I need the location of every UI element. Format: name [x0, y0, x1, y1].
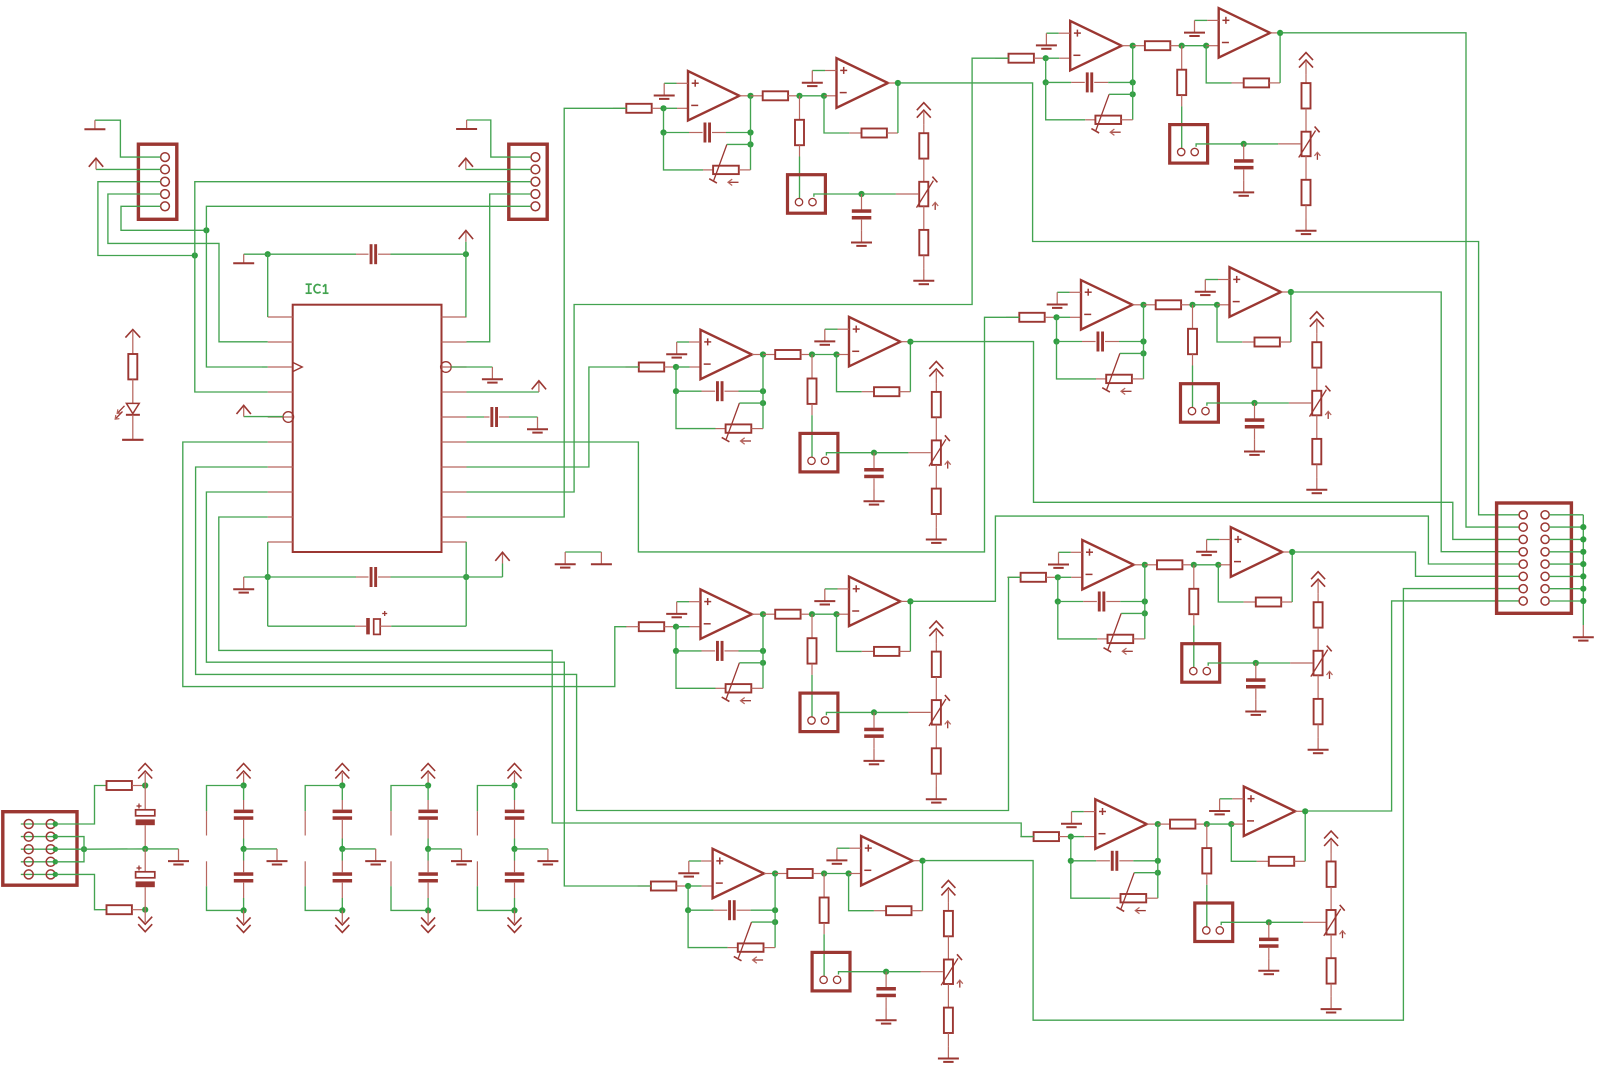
wire R1-Bfb2 [1279, 33, 1281, 83]
junction L1-capN [858, 191, 864, 197]
wire R1-fb1 [1045, 58, 1047, 82]
wire G-tie [565, 551, 601, 553]
junction IC1-bot-left [265, 574, 271, 580]
supply VEE-DC2 [341, 910, 343, 923]
wire IC1-bot-gndlink [244, 576, 268, 578]
ground R1-GB [1194, 20, 1196, 32]
junction L2-mid1 [809, 351, 815, 357]
pin DC2-vplus [304, 811, 306, 835]
wire L2-outdrop2 [762, 391, 764, 428]
junction R2-potR [1140, 350, 1146, 356]
wire SV2-1-gnd [467, 120, 509, 157]
ground R3-GC [1255, 699, 1257, 711]
ground R1-GC [1243, 180, 1245, 192]
supply VCC-DC2 [341, 773, 343, 786]
resistor L2-Ru [935, 383, 937, 392]
junction IC1-top-left [265, 251, 271, 257]
wire L4-outdrop [774, 874, 776, 911]
wire L3-A+pin [689, 601, 701, 603]
junction SVR-dot [1580, 549, 1586, 555]
supply R3-VCC [1317, 581, 1319, 594]
ground R4-GA [1071, 812, 1073, 824]
wire R1-B+ [1195, 19, 1208, 21]
junction L2-potR [760, 400, 766, 406]
wire L3-fbL2 [676, 650, 702, 652]
resistor R1-Rdn [1181, 46, 1183, 70]
wire L3-Bout-pin [900, 600, 910, 602]
wire IC1-top-left-drop [267, 254, 269, 317]
wire R4-Aout-pin [1147, 823, 1158, 825]
wire R1-trimpin [1278, 143, 1300, 145]
supply VCC-LED [132, 331, 134, 354]
wire R4-potloopL [1071, 861, 1111, 898]
junction L4-mid1 [821, 870, 827, 876]
wire R3out [1292, 552, 1519, 576]
wire R4-outdrop2 [1157, 861, 1159, 898]
potentiometer L2-Pfb [716, 428, 726, 430]
wire L2-mid [812, 354, 837, 356]
junction L1-inv-node [660, 105, 666, 111]
wire L4-tojp [823, 934, 825, 976]
wire DC3-loop-bot [391, 886, 428, 910]
wire R1feed [467, 58, 1009, 492]
resistor R2-Rin [1019, 313, 1044, 322]
ground G-LED [122, 439, 143, 441]
wire L1-tojp [799, 157, 801, 199]
junction IC1-bot-right [463, 574, 469, 580]
wire L4-jpout [839, 972, 887, 975]
resistor R3-Rs [1145, 564, 1157, 566]
wire bus1-R4feed [219, 517, 1034, 837]
solder-jumper L3-JP [800, 693, 838, 732]
wire R3-tojp [1193, 626, 1195, 668]
wire R2-Bfb1 [1217, 305, 1242, 342]
capacitor R3-Cfb [1083, 601, 1097, 603]
wire R3-capN2 [1256, 662, 1290, 664]
ground L4-GT [947, 1046, 949, 1058]
wire L2-potloopL [676, 391, 716, 428]
wire DC3-gnd [428, 848, 461, 850]
wire L2-Bfb2 [909, 342, 911, 392]
supply VCC-DC3 [427, 773, 429, 786]
junction R1-Bout [1277, 30, 1283, 36]
junction DC3-top [425, 782, 431, 788]
connector SV2 pins [531, 153, 540, 162]
wire SV1-1-gnd [95, 120, 138, 157]
trimmer L4-Pt [944, 960, 953, 985]
wire R3-mid [1194, 564, 1219, 566]
wire R2-capN2 [1255, 402, 1289, 404]
junction R2-fbR [1140, 338, 1146, 344]
wire L3-Bfb1 [837, 614, 862, 651]
ground L2-GA [676, 342, 678, 354]
wire SVP-3 [55, 848, 84, 850]
wire DC1-gnd [244, 848, 277, 850]
ground R1-GT [1305, 219, 1307, 231]
connector SV2 box [509, 144, 547, 219]
pin DC3-vminus [390, 861, 392, 886]
wire R3-outdrop2 [1144, 602, 1146, 639]
junction R3-inv-node [1055, 574, 1061, 580]
wire IC1-bot-right-v [465, 542, 467, 626]
supply VEE-P [144, 910, 146, 923]
wire R4-Bfb2 [1304, 811, 1306, 861]
pin DC3-vplus [390, 811, 392, 835]
wire R2-B+ [1205, 279, 1218, 281]
junction L2-capN [871, 450, 877, 456]
wire R1-potwiper [1109, 93, 1133, 95]
capacitor L2-Cfb [702, 390, 716, 392]
wire L1-inv [664, 107, 678, 109]
wire R4-A+ [1072, 811, 1084, 813]
junction DC2-mid [339, 846, 345, 852]
capacitor L1-Cfb [689, 132, 703, 134]
op-amp L4-B [861, 836, 912, 886]
junction L4-capN [883, 969, 889, 975]
ground G-tie-right [600, 552, 602, 564]
capacitor C-IC-bot1 [268, 576, 356, 578]
capacitor R4-Cfb [1096, 860, 1110, 862]
resistor R2-Rdn [1192, 305, 1194, 329]
junction R4-capN [1266, 919, 1272, 925]
junction DC3-mid [425, 846, 431, 852]
wire L2-outdrop [762, 355, 764, 392]
ground L1-GB [811, 71, 813, 83]
wire L1-Bout-pin [888, 82, 898, 84]
wire L2-trimpin [908, 452, 930, 454]
wire R3-Bfb1 [1218, 565, 1243, 602]
wire L4-A+pin [701, 860, 713, 862]
junction DC4-bot [511, 907, 517, 913]
wire R4-Bout-pin [1295, 810, 1305, 812]
wire L3-inv [676, 626, 690, 628]
resistor R4-Rfb [1257, 860, 1269, 862]
resistor R1-Ru [1305, 75, 1307, 84]
resistor R1-Rs [1133, 45, 1145, 47]
junction R4-mid1 [1204, 821, 1210, 827]
wire R4-B-pin [1231, 823, 1244, 825]
wire R2-Bfb2 [1290, 292, 1292, 342]
label IC1 [306, 283, 312, 285]
wire R1-fbL2 [1046, 81, 1072, 83]
pin DC2-vminus [304, 861, 306, 886]
wire R2-A+ [1057, 291, 1069, 293]
capacitor DC4-C1 [514, 786, 516, 801]
junction R2-mid1 [1189, 302, 1195, 308]
ground G-DC1 [276, 849, 278, 861]
wire R1-mid [1182, 45, 1207, 47]
wire L1-trimpin [896, 193, 918, 195]
resistor R3-Rin [1021, 573, 1046, 582]
junction L1-potR [747, 141, 753, 147]
junction R2-inv-node [1053, 314, 1059, 320]
ground R3-GB [1206, 540, 1208, 552]
junction R4-fbR [1155, 858, 1161, 864]
pin DC4-vminus [476, 861, 478, 886]
junction R3-Aout [1142, 562, 1148, 568]
wire R4-fbR [1133, 860, 1158, 862]
wire L3-tojp [811, 675, 813, 717]
wire R3-B+ [1207, 539, 1220, 541]
ground L4-GB [836, 848, 838, 860]
junction SVP-pin [53, 872, 58, 877]
wire R1-Bfb1 [1206, 46, 1231, 83]
supply R4-VCC [1330, 841, 1332, 854]
wire R2-fbR [1119, 341, 1144, 343]
junction L3-fbR [760, 648, 766, 654]
wire L4-Bfb2 [922, 861, 924, 911]
capacitor DC1-C1 [243, 786, 245, 801]
resistor R2-Ru [1316, 334, 1318, 343]
connector SVR pins [1519, 511, 1527, 519]
wire R1-tojp [1181, 106, 1183, 148]
junction L3-capN [871, 709, 877, 715]
resistor R3-Rdn [1193, 565, 1195, 589]
op-amp L3-A [701, 589, 752, 639]
wire L2-potwiper [739, 402, 763, 404]
ground L2-GC [873, 489, 875, 501]
junction R3-potR [1142, 610, 1148, 616]
supply VCC-IC-top [465, 242, 467, 255]
ground L1-GT [923, 269, 925, 281]
supply VEE-DC1 [243, 910, 245, 923]
wire DC1-loop-bot [207, 886, 244, 910]
resistor R4-Rdn [1206, 824, 1208, 848]
IC1 clock pin mark [293, 362, 303, 371]
op-amp R3-B [1231, 527, 1282, 577]
wire R2-fb1 [1056, 317, 1058, 341]
op-amp L2-B [849, 317, 900, 367]
capacitor C-IC-top [268, 253, 356, 255]
ground R1-GA [1045, 33, 1047, 45]
resistor L4-Rs [775, 873, 787, 875]
wire L4-potloopL [688, 910, 728, 947]
wire L1-potloopL [664, 133, 704, 170]
wire L3-Aout-pin [752, 613, 763, 615]
resistor L3-Rfb [862, 650, 874, 652]
wire IC1-l417 [244, 416, 284, 418]
wire L4-B+pin [850, 847, 862, 849]
junction R2-mid2 [1214, 302, 1220, 308]
wire L3-B+pin [838, 588, 850, 590]
op-amp L1-B [837, 58, 888, 108]
wire DC3-loop-top [391, 786, 428, 812]
resistor L2-Rs [763, 354, 775, 356]
junction DC3-bot [425, 907, 431, 913]
junction R3-mid2 [1215, 562, 1221, 568]
resistor L4-Ru [947, 902, 949, 911]
wire R3-inv [1058, 576, 1072, 578]
wire R4out [1305, 601, 1519, 811]
wire L2out [910, 342, 1519, 540]
wire SVP-4 [55, 849, 84, 862]
ground R2-GT [1316, 478, 1318, 490]
resistor L1-Rs [751, 95, 763, 97]
solder-jumper L1-JP [788, 175, 826, 214]
wire L3-outdrop [762, 614, 764, 651]
wire R1-jpout [1196, 144, 1244, 147]
wire R2-jpout [1207, 403, 1255, 406]
junction L1-fbR [747, 129, 753, 135]
junction L4-fbL [685, 907, 691, 913]
ground G-SV2 [466, 120, 468, 129]
capacitor R4-Cg [1268, 922, 1270, 938]
supply R2-VCC [1316, 321, 1318, 334]
junction L4-potR [772, 919, 778, 925]
resistor L4-Rin [651, 882, 676, 891]
wire R4-outdrop [1157, 824, 1159, 861]
ground R2-GB [1204, 280, 1206, 292]
connector SV1 pins [161, 153, 170, 162]
wire L4-Bfb1 [849, 874, 874, 911]
junction DC1-bot [241, 907, 247, 913]
capacitor L2-Cg [873, 453, 875, 469]
wire R4-A+pin [1084, 811, 1096, 813]
trimmer R2-Pt [1312, 391, 1321, 416]
wire L3out [910, 516, 1519, 601]
junction L1-Aout [747, 93, 753, 99]
capacitor DC1-C2 [243, 849, 245, 861]
ground R3-GA [1058, 552, 1060, 564]
ground G-DC3 [461, 849, 463, 861]
wire L3-inv-pin [690, 626, 701, 628]
supply VCC-r392 [538, 382, 540, 392]
wire L2-Aout-pin [752, 354, 763, 356]
wire L4-fb1 [687, 886, 689, 910]
ground R2-GA [1056, 292, 1058, 304]
junction N-255 [192, 252, 198, 258]
resistor R4-Rin [1034, 832, 1059, 841]
potentiometer L4-Pfb [728, 947, 738, 949]
wire SVR-right-stubs [1549, 514, 1583, 516]
wire L1-outdrop [750, 96, 752, 133]
resistor L3-Rd2 [935, 725, 937, 749]
wire SV1-5 [121, 206, 206, 230]
wire R3-trimpin [1290, 662, 1312, 664]
wire R4-tojp [1206, 885, 1208, 927]
resistor L1-Rdn [799, 96, 801, 120]
wire R3-A+pin [1071, 551, 1083, 553]
junction N-vminus [142, 907, 148, 913]
junction R1-mid1 [1179, 43, 1185, 49]
potentiometer R1-Pfb [1085, 119, 1095, 121]
wire clk-pin [262, 366, 268, 368]
wire L3-A+ [677, 601, 689, 603]
resistor R2-Rs [1144, 304, 1156, 306]
junction R1-potR [1130, 91, 1136, 97]
wire BUS-183 [195, 182, 509, 256]
wire R4-B+pin [1232, 798, 1244, 800]
supply R1-VCC [1305, 62, 1307, 75]
ground G-SVR [1582, 625, 1584, 637]
wire IC1-r392 [467, 391, 539, 393]
junction L1-Bout [895, 80, 901, 86]
IC1 left pins [268, 316, 293, 318]
potentiometer L3-Pfb [716, 687, 726, 689]
capacitor DC3-C2 [427, 849, 429, 861]
wire R1-capN2 [1244, 143, 1278, 145]
wire R3-inv-pin [1071, 576, 1082, 578]
capacitor R2-Cg [1254, 403, 1256, 419]
junction R1-fbL [1043, 79, 1049, 85]
capacitor R3-Cg [1255, 663, 1257, 679]
op-amp L3-B [849, 577, 900, 627]
supply L2-VCC [935, 371, 937, 384]
capacitor L4-Cfb [714, 909, 728, 911]
wire L2-A+ [677, 341, 689, 343]
wire L4-B-pin [849, 873, 862, 875]
junction L4-Aout [772, 870, 778, 876]
wire R2feed [467, 317, 1020, 552]
wire R2-Bout-pin [1281, 291, 1291, 293]
wire R4-fbL2 [1071, 860, 1097, 862]
junction R4-potR [1155, 870, 1161, 876]
junction R4-inv-node [1068, 834, 1074, 840]
wire L1-inv-pin [677, 107, 688, 109]
wire L1-fbL2 [664, 132, 690, 134]
resistor R-Vp [107, 781, 132, 790]
wire SV1-4 [108, 194, 243, 342]
junction L3-Aout [760, 611, 766, 617]
wire L4-Aout-pin [764, 873, 775, 875]
wire L4-mid [824, 873, 849, 875]
resistor L4-Rdn [823, 874, 825, 898]
ground G-DC2 [375, 849, 377, 861]
resistor R2-Rd2 [1316, 415, 1318, 439]
junction R4-Aout [1155, 821, 1161, 827]
junction L3-Bout [907, 598, 913, 604]
wire L2-tojp [811, 415, 813, 457]
wire L4-fbR [751, 909, 776, 911]
ground L3-GB [824, 589, 826, 601]
wire L4-A+ [689, 860, 701, 862]
wire R3-Aout-pin [1134, 564, 1145, 566]
junction R2-Bout [1288, 289, 1294, 295]
pin DC1-vminus [206, 861, 208, 886]
wire L4-inv-pin [702, 885, 713, 887]
wire R1-inv-pin [1059, 57, 1070, 59]
wire L2-B+pin [838, 328, 850, 330]
supply VEE-DC4 [514, 910, 516, 923]
wire R4-B+ [1220, 798, 1233, 800]
wire IC1-r367 [451, 366, 492, 368]
wire R2-mid [1193, 304, 1218, 306]
IC U-IC1 box [293, 305, 442, 552]
capacitor C-r417 [467, 416, 485, 418]
junction N-gndmid [142, 846, 148, 852]
supply VCC-P [144, 773, 146, 786]
wire SV2-4 [467, 194, 509, 342]
junction L3-mid1 [809, 611, 815, 617]
wire R1-A+ [1046, 32, 1058, 34]
wire R3-fbR [1120, 601, 1145, 603]
wire R1-outdrop2 [1132, 82, 1134, 119]
wire R1-outdrop [1132, 46, 1134, 83]
wire R2out [1291, 292, 1519, 552]
wire R1out [1280, 33, 1519, 527]
wire R2-outdrop [1143, 305, 1145, 342]
wire L2-B-pin [837, 354, 850, 356]
junction R1-inv-node [1043, 55, 1049, 61]
junction L1-mid1 [796, 93, 802, 99]
wire L2-jpout [826, 453, 874, 456]
junction R4-fbL [1068, 858, 1074, 864]
wire BUS-206 [206, 206, 508, 230]
wire R1-inv [1046, 57, 1060, 59]
ground L3-GT [935, 787, 937, 799]
junction R2-fbL [1053, 338, 1059, 344]
junction L1-fbL [660, 129, 666, 135]
